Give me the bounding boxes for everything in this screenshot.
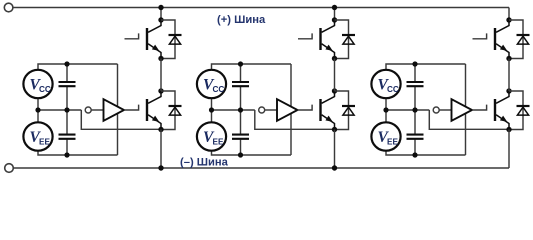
- stage C: wire midpoint to common node: [386, 109, 429, 111]
- stage A: IGBT Qbottom: [147, 91, 161, 130]
- svg-text:(+) Шина: (+) Шина: [217, 14, 266, 26]
- stage C: wire capacitor C1 leads: [414, 64, 416, 81]
- stage B: node midpoint at capacitors: [238, 107, 243, 112]
- stage B: capacitor C1 (across Vcc): [232, 81, 249, 83]
- svg-text:EE: EE: [387, 138, 398, 147]
- wire (-) bus: [13, 167, 509, 169]
- stage A: node supply rail / C1 top: [64, 61, 69, 66]
- stage C: wire between Vcc and Vee (midpoint): [385, 98, 387, 122]
- stage A: capacitor C1 (across Vcc): [59, 81, 76, 83]
- stage B: source Vee: [197, 122, 226, 150]
- stage A: wire diode branch of top IGBT: [161, 20, 175, 59]
- stage A: node collector of bottom IGBT: [158, 88, 163, 93]
- stage B: diode Dtop (freewheeling): [342, 35, 355, 44]
- stage C: wire collector of top IGBT to (+) bus: [508, 8, 510, 21]
- stage A: wire capacitor C2 leads: [66, 110, 68, 134]
- stage C: source Vee: [371, 122, 400, 150]
- stage C: capacitor C2 (across Vee): [407, 134, 424, 136]
- stage C: node collector of top IGBT: [506, 17, 511, 22]
- stage B: wire diode branch of top IGBT: [335, 20, 349, 59]
- stage C: node emitter of top IGBT: [506, 56, 511, 61]
- stage C: wire diode branch of top IGBT: [509, 20, 523, 59]
- svg-text:CC: CC: [213, 85, 225, 94]
- stage A: node emitter of bottom IGBT: [158, 127, 163, 132]
- stage A: wire +supply rail (Vcc top to driver): [38, 64, 118, 70]
- stage B: node -rail / C2 bottom: [238, 152, 243, 157]
- stage C: capacitor C1 (across Vcc): [407, 81, 424, 83]
- stage C: wire +supply rail (Vcc top to driver): [386, 64, 466, 70]
- stage A: wire common return to emitter: [81, 110, 161, 129]
- stage A: node -rail / C2 bottom: [64, 152, 69, 157]
- stage B: wire between Vcc and Vee (midpoint): [211, 98, 213, 122]
- stage B: wire common return to emitter: [255, 110, 335, 129]
- stage A: wire midpoint to common node: [38, 109, 81, 111]
- stage A: IGBT Qtop: [147, 20, 161, 59]
- stage A: wire gate stub of top IGBT: [125, 33, 139, 38]
- stage A: buffer amplifier: [104, 99, 125, 121]
- stage A: wire emitter to (-) bus: [160, 130, 162, 169]
- stage B: wire midpoint to common node: [212, 109, 255, 111]
- svg-text:EE: EE: [39, 138, 50, 147]
- stage A: node collector of top IGBT: [158, 17, 163, 22]
- stage A: wire -supply rail (Vee bottom to driver): [38, 151, 118, 155]
- svg-text:CC: CC: [39, 85, 51, 94]
- stage C: diode Dtop (freewheeling): [517, 35, 530, 44]
- stage A: wire phase node (top emitter to bottom collector): [160, 59, 162, 92]
- stage A: node midpoint at sources: [35, 107, 40, 112]
- stage B: node on (-) bus: [332, 165, 337, 170]
- stage C: node collector of bottom IGBT: [506, 88, 511, 93]
- terminal (-) bus input: [5, 164, 14, 173]
- stage C: IGBT Qbottom: [495, 91, 509, 130]
- stage C: node emitter of bottom IGBT: [506, 127, 511, 132]
- stage A: source Vcc: [23, 70, 52, 98]
- stage B: wire buffer output to gate: [298, 105, 313, 110]
- svg-text:(–) Шина: (–) Шина: [180, 157, 229, 169]
- stage C: wire emitter to (-) bus: [508, 130, 510, 169]
- stage B: node collector of top IGBT: [332, 17, 337, 22]
- stage C: wire buffer output to gate: [472, 105, 487, 110]
- stage B: wire capacitor C1 leads: [240, 64, 242, 81]
- stage C: wire gate stub of top IGBT: [473, 33, 487, 38]
- stage C: node -rail / C2 bottom: [412, 152, 417, 157]
- stage C: wire input to buffer: [439, 109, 451, 111]
- stage C: node midpoint at capacitors: [412, 107, 417, 112]
- stage A: wire collector of top IGBT to (+) bus: [160, 8, 162, 21]
- stage B: IGBT Qbottom: [321, 91, 335, 130]
- stage B: diode Dbottom (freewheeling): [342, 106, 355, 115]
- stage A: node on (+) bus: [158, 5, 163, 10]
- stage C: node midpoint at sources: [383, 107, 388, 112]
- stage A: diode Dtop (freewheeling): [169, 35, 182, 44]
- stage B: wire collector of top IGBT to (+) bus: [334, 8, 336, 21]
- stage B: wire input to buffer: [265, 109, 277, 111]
- stage B: wire diode branch of bottom IGBT: [335, 91, 349, 130]
- stage A: wire capacitor C1 leads: [66, 64, 68, 81]
- stage C: buffer amplifier: [452, 99, 473, 121]
- stage A: wire diode branch of bottom IGBT: [161, 91, 175, 130]
- stage C: IGBT Qtop: [495, 20, 509, 59]
- stage A: wire between Vcc and Vee (midpoint): [37, 98, 39, 122]
- stage C: wire phase node (top emitter to bottom collector): [508, 59, 510, 92]
- stage B: source Vcc: [197, 70, 226, 98]
- stage B: capacitor C2 (across Vee): [232, 134, 249, 136]
- stage B: wire -supply rail (Vee bottom to driver): [212, 151, 292, 155]
- stage B: node on (+) bus: [332, 5, 337, 10]
- stage B: IGBT Qtop: [321, 20, 335, 59]
- stage C: node supply rail / C1 top: [412, 61, 417, 66]
- stage A: wire buffer output to gate: [124, 105, 139, 110]
- stage B: wire emitter to (-) bus: [334, 130, 336, 169]
- stage B: wire capacitor C2 leads: [240, 110, 242, 134]
- stage B: node emitter of bottom IGBT: [332, 127, 337, 132]
- stage A: diode Dbottom (freewheeling): [169, 106, 182, 115]
- stage C: wire driver supply line (right vertical): [465, 64, 467, 155]
- stage A: capacitor C2 (across Vee): [59, 134, 76, 136]
- stage B: node supply rail / C1 top: [238, 61, 243, 66]
- wire (+) bus: [13, 7, 509, 9]
- stage C: wire diode branch of bottom IGBT: [509, 91, 523, 130]
- stage C: wire capacitor C2 leads: [414, 110, 416, 134]
- svg-text:EE: EE: [213, 138, 224, 147]
- stage A: driver input terminal: [85, 107, 91, 113]
- stage B: wire gate stub of top IGBT: [298, 33, 312, 38]
- terminal (+) bus input: [4, 3, 13, 12]
- stage A: wire input to buffer: [91, 109, 103, 111]
- stage C: diode Dbottom (freewheeling): [517, 106, 530, 115]
- stage A: source Vee: [23, 122, 52, 150]
- stage B: node midpoint at sources: [209, 107, 214, 112]
- stage C: source Vcc: [371, 70, 400, 98]
- stage B: buffer amplifier: [277, 99, 298, 121]
- stage B: node emitter of top IGBT: [332, 56, 337, 61]
- stage A: node emitter of top IGBT: [158, 56, 163, 61]
- stage A: node on (-) bus: [158, 165, 163, 170]
- stage B: wire +supply rail (Vcc top to driver): [212, 64, 292, 70]
- stage B: wire phase node (top emitter to bottom collector): [334, 59, 336, 92]
- stage A: wire driver supply line (right vertical): [117, 64, 119, 155]
- stage C: wire -supply rail (Vee bottom to driver): [386, 151, 466, 155]
- stage B: node collector of bottom IGBT: [332, 88, 337, 93]
- svg-text:CC: CC: [387, 85, 399, 94]
- stage A: node midpoint at capacitors: [64, 107, 69, 112]
- stage B: wire driver supply line (right vertical): [290, 64, 292, 155]
- stage C: wire common return to emitter: [429, 110, 509, 129]
- stage C: driver input terminal: [433, 107, 439, 113]
- stage B: driver input terminal: [259, 107, 265, 113]
